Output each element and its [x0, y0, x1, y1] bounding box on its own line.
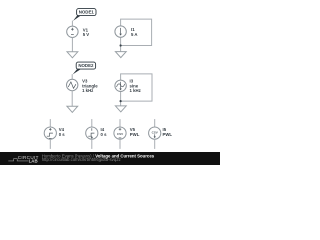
svg-text:http://circuitlab.com/c/krtm5f: http://circuitlab.com/c/krtm5f/6jpdta-sv…	[42, 157, 121, 162]
wire I3 loop	[121, 74, 152, 101]
wire I5 top stub	[154, 119, 156, 127]
svg-text:PWL: PWL	[130, 132, 140, 137]
label V5 value	[130, 127, 140, 137]
label V1 value	[83, 28, 90, 37]
svg-text:I5: I5	[163, 127, 167, 132]
label I1 value	[131, 27, 138, 37]
svg-text:V4: V4	[59, 127, 65, 132]
svg-text:5 A: 5 A	[131, 32, 138, 37]
svg-text:LAB: LAB	[29, 159, 38, 164]
wire V4 bottom stub	[49, 139, 51, 149]
current source I4 step	[86, 127, 98, 139]
current source I1	[115, 26, 126, 37]
wire I4 top stub	[91, 119, 93, 127]
wire V5 top stub	[119, 119, 121, 127]
ground under I3	[115, 106, 126, 112]
wire I3 bottom stub	[120, 92, 122, 106]
wire V4 top stub	[49, 119, 51, 127]
ground under I1	[115, 52, 126, 58]
svg-text:I4: I4	[101, 127, 105, 132]
wire V1 bottom	[71, 38, 73, 52]
voltage source V3 triangle	[67, 79, 78, 90]
label V4 value	[59, 127, 66, 137]
wire V1 top stub	[71, 21, 73, 27]
current source I5 PWL	[149, 127, 161, 139]
ground under V3	[67, 106, 78, 112]
svg-text:1 kHz: 1 kHz	[130, 88, 141, 93]
label V3 value	[82, 79, 98, 94]
wire I4 bottom stub	[91, 139, 93, 149]
svg-text:NODE1: NODE1	[79, 10, 95, 15]
label I4 value	[101, 127, 108, 137]
junction at I1 bottom	[120, 44, 122, 46]
svg-text:I1: I1	[131, 27, 135, 32]
footer logo CIRCUIT LAB	[8, 155, 38, 164]
wire V3 top stub	[71, 74, 73, 79]
wire V3 bottom	[71, 91, 73, 107]
label I5 value	[163, 127, 173, 137]
wire I5 bottom stub	[154, 139, 156, 149]
svg-text:CSV: CSV	[152, 130, 158, 134]
svg-text:V3: V3	[82, 79, 88, 84]
voltage source V5 PWL	[114, 127, 126, 139]
svg-text:5 V: 5 V	[83, 32, 90, 37]
node NODE1 flag	[73, 9, 96, 21]
svg-text:PWL: PWL	[163, 132, 173, 137]
voltage source V1	[67, 26, 78, 37]
svg-text:V5: V5	[130, 127, 136, 132]
svg-text:0 s: 0 s	[101, 132, 108, 137]
junction at I3 bottom	[120, 100, 122, 102]
footer bar	[0, 152, 220, 165]
svg-text:0 s: 0 s	[59, 132, 66, 137]
current source I3 sine	[115, 80, 126, 91]
voltage source V4 step	[44, 127, 56, 139]
ground under V1	[67, 52, 78, 58]
wire I1 loop	[121, 19, 152, 45]
wire I1 bottom stub	[120, 37, 122, 51]
svg-text:1 kHz: 1 kHz	[82, 88, 93, 93]
svg-text:NODE2: NODE2	[78, 63, 94, 68]
svg-text:CSV: CSV	[117, 132, 123, 136]
wire V5 bottom stub	[119, 139, 121, 149]
node NODE2 flag	[73, 62, 96, 74]
label I3 value	[130, 79, 141, 93]
